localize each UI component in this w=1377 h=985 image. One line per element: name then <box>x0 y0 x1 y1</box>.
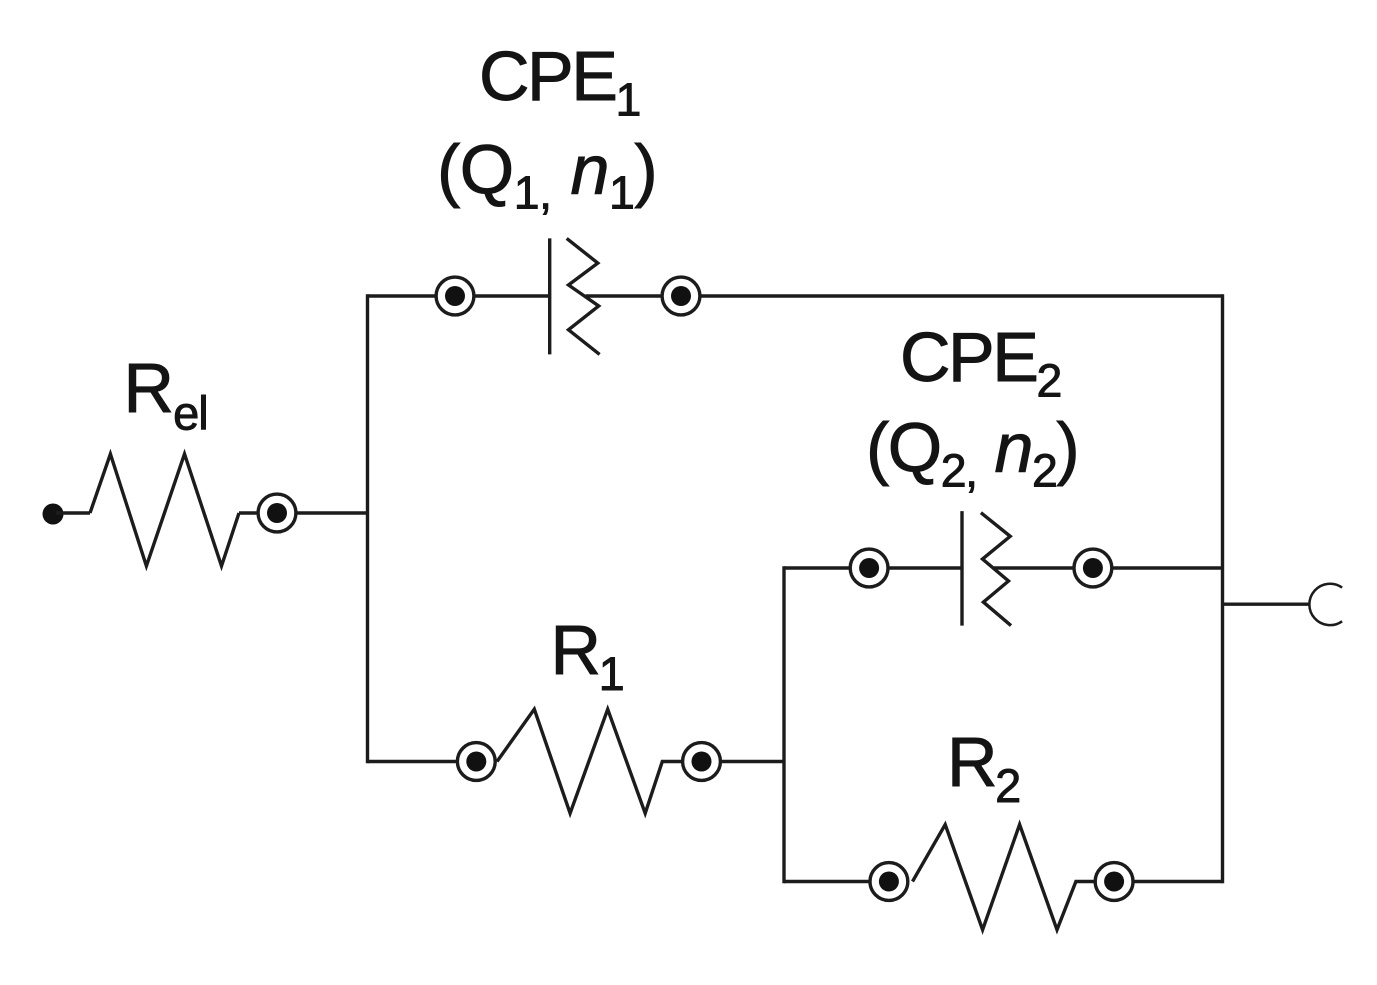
node E2 (R2 right) <box>1095 863 1133 901</box>
CPE CPE2 zigzag <box>981 513 1011 626</box>
terminal T1 (left input dot) <box>43 504 64 525</box>
terminal T2 (open circle C) <box>1309 584 1342 625</box>
wire top rail left segment <box>368 294 550 297</box>
wire right vertical <box>1221 294 1224 883</box>
wire R1 rail left <box>368 760 459 763</box>
wire output lead <box>1223 603 1310 606</box>
wire Rel to node A <box>239 511 368 514</box>
wire R1 rail right <box>720 760 784 763</box>
wire CPE2 rail right segment <box>994 566 1223 569</box>
node C1 (R1 left) <box>457 743 495 781</box>
wire R2 rail right <box>1132 880 1223 883</box>
node A (junction after Rel) <box>258 494 296 532</box>
node D1 (CPE2 left) <box>850 549 888 587</box>
svg-text:Rel: Rel <box>124 349 208 440</box>
svg-text:(Q2, n2): (Q2, n2) <box>866 409 1078 497</box>
node E1 (R2 left) <box>870 863 908 901</box>
CPE CPE1 zigzag <box>567 238 600 354</box>
wire input lead <box>56 511 90 514</box>
node B2 (CPE1 right) <box>662 277 700 315</box>
CPE CPE2 plate <box>960 511 963 625</box>
wire left vertical <box>366 294 369 763</box>
svg-text:R1: R1 <box>551 611 623 700</box>
resistor R1 <box>497 709 683 813</box>
resistor Rel <box>90 454 239 566</box>
CPE CPE1 plate <box>548 238 551 354</box>
svg-text:CPE1: CPE1 <box>479 37 639 125</box>
node D2 (CPE2 right) <box>1074 549 1112 587</box>
node B1 (CPE1 left) <box>436 277 474 315</box>
node C2 (R1 right) <box>683 743 721 781</box>
wire R2 rail left <box>784 880 871 883</box>
svg-text:R2: R2 <box>947 723 1019 812</box>
wire CPE2 rail left segment <box>784 566 962 569</box>
svg-text:(Q1, n1): (Q1, n1) <box>437 131 657 219</box>
wire inner-left vertical <box>782 566 785 883</box>
svg-text:CPE2: CPE2 <box>900 318 1060 406</box>
resistor R2 <box>913 825 1096 930</box>
wire top rail right segment <box>586 294 1223 297</box>
